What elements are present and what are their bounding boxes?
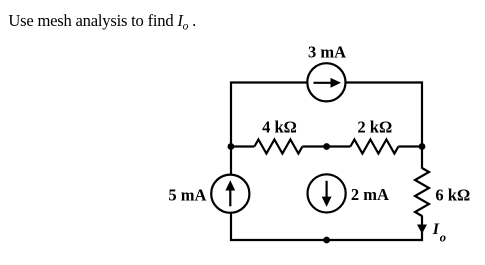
svg-text:6 kΩ: 6 kΩ [435, 185, 470, 204]
node junction center-mid [323, 143, 330, 150]
wire right vertical lower segment [421, 216, 423, 242]
wire left vertical + top + bottom [231, 83, 422, 241]
resistor 6 kOhm vertical zigzag [415, 168, 429, 216]
svg-text:4 kΩ: 4 kΩ [262, 117, 297, 136]
svg-text:o: o [440, 231, 446, 245]
arrow of current source I3 (points down) [326, 181, 328, 198]
current arrow Io on right wire (points down) [417, 225, 427, 234]
wire right vertical upper segment [421, 81, 423, 168]
svg-text:2 kΩ: 2 kΩ [357, 117, 392, 136]
current source I2 (5 mA) circle [211, 175, 249, 213]
svg-text:I: I [432, 221, 440, 238]
current source I1 (3 mA) circle [307, 63, 345, 101]
wire middle row center segment [302, 145, 350, 147]
resistor 2 kOhm zigzag [350, 140, 398, 154]
current source I3 (2 mA) circle [308, 174, 346, 212]
node junction right-mid [419, 143, 426, 150]
arrow of current source I1 (points right) [314, 82, 332, 84]
resistor 4 kOhm zigzag [254, 140, 302, 154]
node junction bottom-center [323, 237, 330, 244]
arrow of current source I2 (points up) [229, 190, 231, 207]
node junction left-mid [228, 143, 235, 150]
svg-text:Use mesh analysis to find Io .: Use mesh analysis to find Io . [8, 11, 196, 33]
svg-text:5 mA: 5 mA [168, 185, 206, 204]
svg-text:3 mA: 3 mA [308, 42, 346, 61]
svg-text:2 mA: 2 mA [351, 185, 389, 204]
wire middle row left segment [231, 145, 254, 147]
wire middle row right segment [398, 145, 422, 147]
